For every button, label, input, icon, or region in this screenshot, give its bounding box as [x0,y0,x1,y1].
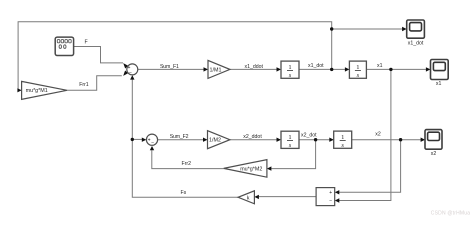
svg-text:1: 1 [341,134,344,141]
svg-text:−: − [129,71,132,77]
svg-text:x1_dot: x1_dot [308,63,324,69]
svg-text:1/M2: 1/M2 [209,138,221,144]
svg-text:+: + [329,190,332,196]
svg-text:x2: x2 [375,131,381,137]
svg-text:k: k [247,195,250,201]
svg-text:x2: x2 [431,151,437,157]
svg-text:Sum_F1: Sum_F1 [160,64,179,70]
svg-text:x1: x1 [436,81,442,87]
svg-text:1: 1 [288,134,291,141]
svg-text:mu*g*M2: mu*g*M2 [240,167,262,173]
svg-text:Frr2: Frr2 [182,161,192,167]
svg-text:x2_dot: x2_dot [301,132,317,138]
svg-text:1: 1 [288,64,291,71]
svg-text:F: F [85,40,88,46]
svg-text:mu*g*M1: mu*g*M1 [26,88,48,94]
svg-text:Fs: Fs [181,190,187,196]
svg-text:x1_ddot: x1_ddot [245,64,264,70]
svg-text:−: − [151,140,154,146]
svg-text:+: + [148,138,151,144]
svg-text:−: − [329,198,332,204]
svg-text:1: 1 [356,64,359,71]
svg-text:CSDN @trHMua: CSDN @trHMua [431,211,470,217]
svg-text:x1: x1 [377,63,383,69]
svg-text:Frr1: Frr1 [79,82,89,88]
svg-text:x1_dot: x1_dot [408,41,424,47]
svg-text:Sum_F2: Sum_F2 [170,134,189,140]
svg-text:1/M1: 1/M1 [210,67,222,73]
svg-text:x2_ddot: x2_ddot [243,134,262,140]
